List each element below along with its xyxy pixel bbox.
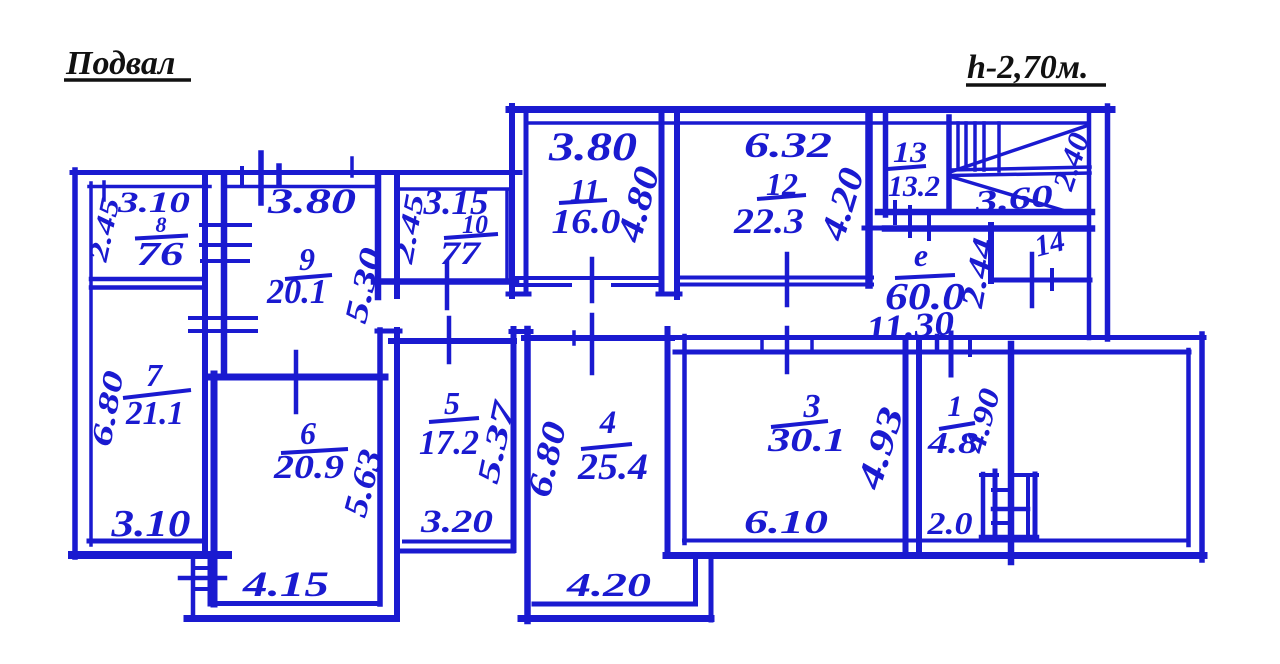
- title h-2,70м.: [966, 49, 1106, 86]
- svg-text:13: 13: [893, 136, 927, 169]
- svg-text:4.20: 4.20: [566, 567, 651, 604]
- wall room8 top inner: [89, 185, 210, 189]
- wall right-section top a: [661, 335, 1204, 340]
- wall room12 bottom b: [677, 283, 872, 287]
- wall rooms3-1 a: [903, 341, 909, 550]
- wall room10 left: [394, 175, 400, 296]
- ladder rails: [981, 474, 986, 538]
- stub rungs: [194, 566, 208, 570]
- wall room6 right a: [377, 330, 383, 604]
- bar room1: [939, 423, 975, 429]
- bar corridor: [895, 275, 955, 278]
- window rungs wall rooms7-9: [190, 316, 256, 320]
- svg-text:4: 4: [599, 405, 617, 441]
- svg-text:6.10: 6.10: [744, 504, 828, 541]
- wall stub left rail: [191, 561, 196, 619]
- wall room4 left: [524, 329, 531, 621]
- wall corridor-e top: [885, 225, 1092, 232]
- wall room6 bottom outer: [187, 615, 395, 622]
- wall upper left outer: [509, 106, 515, 296]
- tick room10 bottom: [445, 262, 450, 308]
- wall right-section right inner: [1186, 350, 1191, 545]
- bar room3: [771, 421, 828, 427]
- svg-text:6.32: 6.32: [744, 125, 832, 165]
- wall room7 top: [91, 285, 203, 290]
- wall rooms8-7 right: [202, 175, 208, 548]
- wall top-left outer: [72, 170, 520, 175]
- wall room10 right inner: [505, 192, 509, 278]
- wall right-section right outer: [1199, 334, 1205, 560]
- bar room7: [123, 390, 191, 398]
- svg-text:77: 77: [440, 236, 482, 272]
- jamb room5 top: [572, 332, 576, 344]
- wall upper right inner: [1087, 113, 1092, 338]
- svg-text:e: e: [914, 237, 928, 273]
- wall room11 bottom b: [512, 283, 570, 287]
- wall upper left inner: [524, 113, 529, 292]
- bar room4: [581, 444, 632, 449]
- tick top wall x280: [276, 166, 282, 184]
- stairs step lines: [956, 123, 960, 169]
- wall room5 top: [391, 338, 514, 344]
- tick room1 top b: [935, 336, 940, 349]
- wall right-section bottom inner: [684, 539, 1188, 543]
- svg-text:3.10: 3.10: [110, 503, 190, 545]
- svg-text:3.60: 3.60: [972, 178, 1054, 220]
- wall room11 bottom a: [512, 276, 661, 280]
- bar room8: [135, 236, 188, 239]
- bar room11: [559, 200, 607, 203]
- svg-text:3.80: 3.80: [267, 181, 356, 221]
- wall cap room6 right top: [377, 329, 400, 334]
- tick room1 top a: [949, 333, 954, 375]
- ticks room13 door: [893, 202, 897, 223]
- svg-text:3.10: 3.10: [117, 186, 190, 219]
- tick room11 bottom: [590, 259, 595, 301]
- wall room5 bottom inner: [404, 540, 513, 544]
- wall room5 right: [511, 329, 517, 550]
- svg-text:Подвал: Подвал: [65, 45, 175, 82]
- tick top wall x352: [350, 158, 354, 176]
- wall room9 left: [221, 175, 228, 377]
- svg-text:8: 8: [156, 212, 167, 237]
- svg-text:5: 5: [444, 385, 460, 421]
- tick room6 top: [294, 352, 299, 412]
- svg-text:21.1: 21.1: [125, 395, 184, 432]
- svg-text:3.20: 3.20: [420, 504, 493, 540]
- wall rooms13-stairs bottom: [878, 209, 1092, 216]
- wall room5 bottom outer: [400, 549, 513, 554]
- tick room3 top: [785, 328, 790, 372]
- tick room4 top: [590, 315, 595, 373]
- svg-text:h-2,70м.: h-2,70м.: [967, 49, 1089, 86]
- wall cap rooms5-4 top: [511, 329, 531, 334]
- svg-text:11.30: 11.30: [865, 305, 955, 348]
- svg-text:3: 3: [803, 388, 821, 425]
- svg-text:25.4: 25.4: [577, 447, 648, 488]
- wall upper right outer: [1105, 106, 1111, 339]
- wall room6 bottom inner: [210, 601, 379, 606]
- wall room12 bottom a: [677, 276, 872, 280]
- wall rooms11-12 b: [674, 113, 680, 297]
- tick room8 top: [102, 182, 106, 200]
- svg-text:3.80: 3.80: [548, 124, 637, 169]
- wall right-section bottom outer: [666, 552, 1204, 559]
- wall room9 right: [375, 175, 382, 297]
- wall room4 protrusion right a: [693, 559, 698, 604]
- svg-text:20.9: 20.9: [273, 449, 344, 486]
- wall room10 bottom: [374, 278, 516, 285]
- stairs diagonal up: [950, 126, 1086, 172]
- ladder rungs: [981, 473, 997, 477]
- svg-text:76: 76: [137, 236, 184, 273]
- svg-text:6: 6: [300, 415, 316, 451]
- tick top wall x261: [258, 153, 264, 203]
- wall room13 right: [946, 117, 952, 212]
- wall room3 left a: [665, 329, 671, 556]
- wall upper top outer: [509, 106, 1112, 113]
- wall bottom-left outer: [72, 551, 228, 559]
- wall room9 top inner: [224, 185, 375, 189]
- wall room8 bottom: [91, 277, 203, 282]
- wall room13 left: [883, 113, 889, 215]
- svg-text:22.3: 22.3: [733, 201, 804, 241]
- wall room4 bottom inner: [534, 602, 691, 607]
- stairs landing lines: [950, 167, 1090, 170]
- svg-text:17.2: 17.2: [419, 423, 479, 462]
- wall room10 top inner: [397, 187, 509, 191]
- title Подвал: [64, 45, 191, 82]
- wall room6 right b: [394, 330, 400, 619]
- tick room12 bottom: [785, 254, 790, 305]
- wall rooms3-1 b: [916, 341, 922, 556]
- ticks room14 bottom: [1030, 254, 1035, 306]
- wall stub right rail: [208, 560, 213, 604]
- wall room4 bottom outer: [521, 615, 711, 622]
- wall room12 right: [865, 113, 873, 285]
- bar room10: [444, 234, 498, 238]
- bar room5: [429, 418, 479, 422]
- svg-text:13.2: 13.2: [888, 170, 940, 203]
- wall room14 bottom: [991, 278, 1090, 283]
- svg-text:1: 1: [948, 390, 963, 423]
- door jambs room3 top: [760, 337, 764, 352]
- svg-text:4.15: 4.15: [242, 564, 329, 604]
- wall room4 top: [524, 335, 672, 341]
- bar room6: [281, 449, 348, 453]
- wall room1 right: [1008, 344, 1015, 562]
- wall room6 top: [210, 374, 385, 381]
- tick room5 top: [447, 318, 452, 362]
- wall upper inner top line: [530, 121, 1086, 125]
- tick top wall x242: [240, 168, 244, 186]
- bar room13: [888, 166, 926, 169]
- svg-text:2.0: 2.0: [926, 505, 972, 541]
- wall room3 left b: [682, 336, 687, 543]
- svg-text:20.1: 20.1: [266, 272, 327, 311]
- wall left outer: [72, 170, 78, 557]
- stairs diagonal down: [952, 177, 1062, 210]
- wall left inner: [89, 183, 93, 545]
- wall right-section top b: [675, 350, 1189, 355]
- wall room7 bottom inner: [89, 539, 205, 544]
- wall stub room12-13: [864, 226, 889, 231]
- bar room12: [757, 195, 806, 199]
- svg-text:7: 7: [146, 357, 164, 393]
- wall room14 left: [988, 225, 994, 281]
- wall rooms11-12 a: [659, 113, 665, 290]
- wall room4 protrusion right b: [709, 558, 714, 620]
- wall room6 left: [211, 374, 218, 604]
- bar room9: [285, 275, 332, 279]
- svg-text:30.1: 30.1: [767, 422, 846, 459]
- window rungs wall rooms8-9: [201, 223, 250, 227]
